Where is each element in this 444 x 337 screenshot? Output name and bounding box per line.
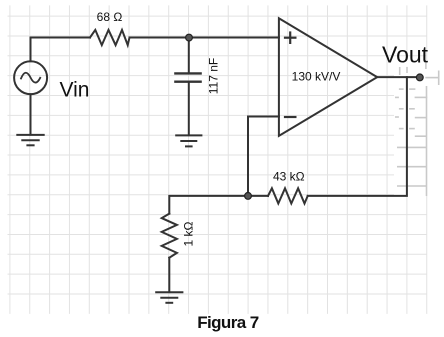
ground (source) [17,134,43,136]
resistor R3 1 kohm (vertical) [162,214,177,258]
wire: source top to op-amp plus input [31,38,91,62]
wire: feedback down from output [308,77,407,196]
resistor R1 68 ohm [90,30,130,45]
ground (1k resistor) [156,291,182,293]
svg-text:Vin: Vin [60,78,90,101]
node: feedback junction [245,193,252,200]
svg-text:117 nF: 117 nF [207,58,221,94]
svg-text:130 kV/V: 130 kV/V [292,70,341,84]
wire: resistor to ground [168,258,170,292]
capacitor plates [175,72,200,74]
op-amp U1 triangle [279,18,377,136]
capacitor C1 117 nF : top lead [188,38,190,74]
wire: source bottom to ground [30,94,32,134]
capacitor bottom lead [188,82,190,135]
resistor R2 43 kohm [268,188,308,203]
ghost gray marks near Vout net [395,63,439,196]
op-amp minus symbol [285,116,295,118]
node: junction at R1/C1 [186,34,193,41]
wire: op-amp output to Vout node [377,76,420,78]
svg-text:Figura 7: Figura 7 [197,313,258,332]
svg-text:1 kΩ: 1 kΩ [182,221,196,246]
svg-text:Vout: Vout [382,42,429,68]
AC source V1 [14,61,47,94]
wire: minus input [248,117,279,196]
ground (capacitor) [176,134,201,136]
node: Vout terminal [416,74,423,81]
svg-text:68 Ω: 68 Ω [97,10,123,24]
wire: resistor to node and left [169,196,268,214]
wire: resistor to op-amp [130,37,279,39]
op-amp plus symbol [285,33,295,118]
ghost area white patch [394,60,428,196]
svg-text:43 kΩ: 43 kΩ [273,170,305,184]
